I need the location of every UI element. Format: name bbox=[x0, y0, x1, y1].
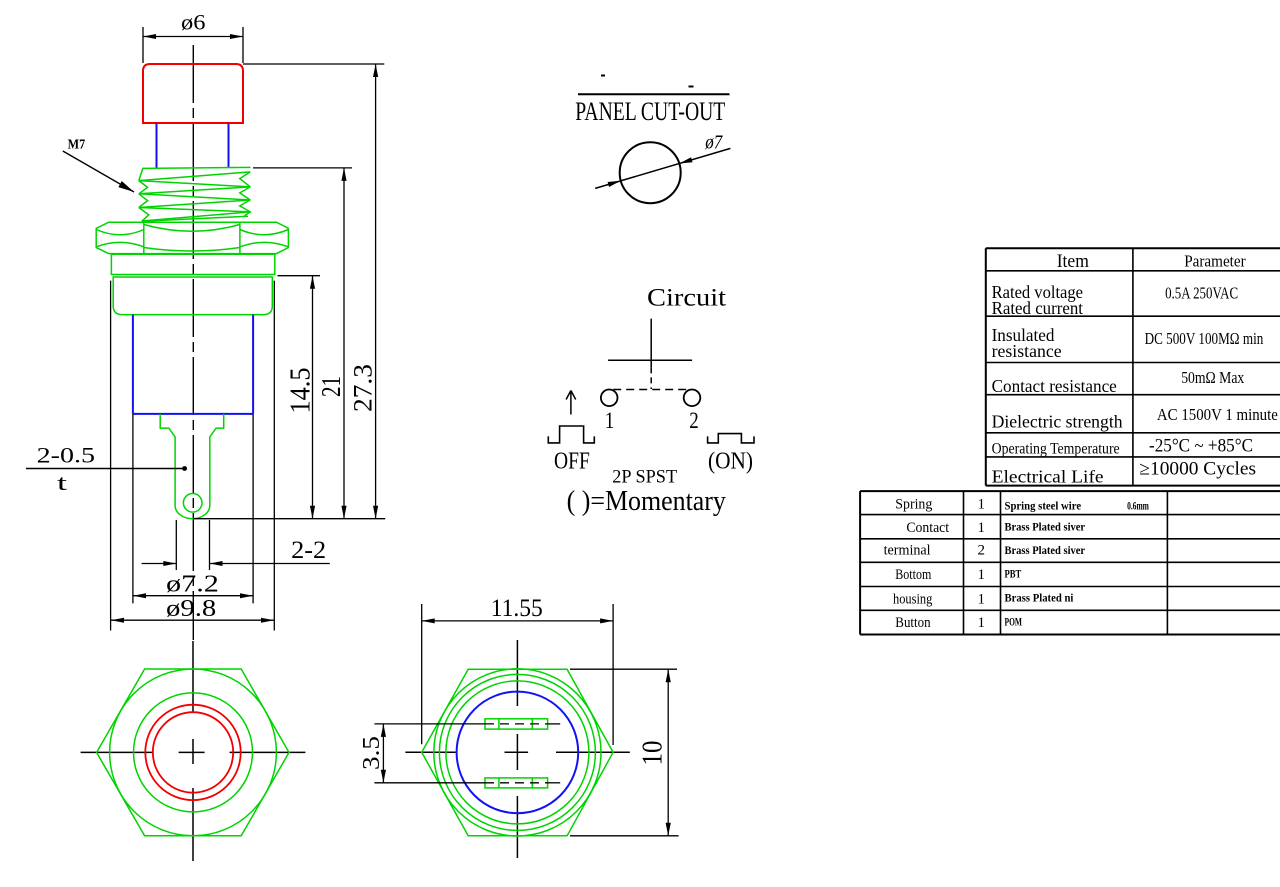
svg-text:≥10000 Cycles: ≥10000 Cycles bbox=[1139, 458, 1256, 479]
svg-text:Contact: Contact bbox=[906, 520, 949, 536]
svg-text:11.55: 11.55 bbox=[491, 595, 543, 622]
svg-text:PANEL CUT-OUT: PANEL CUT-OUT bbox=[575, 97, 725, 126]
svg-text:M7: M7 bbox=[68, 138, 86, 153]
svg-text:( )=Momentary: ( )=Momentary bbox=[567, 486, 726, 517]
svg-text:14.5: 14.5 bbox=[286, 368, 317, 414]
svg-text:2P SPST: 2P SPST bbox=[612, 466, 677, 487]
svg-text:-25°C ~ +85°C: -25°C ~ +85°C bbox=[1149, 436, 1253, 457]
svg-text:1: 1 bbox=[978, 591, 986, 607]
svg-text:0.6mm: 0.6mm bbox=[1127, 499, 1149, 513]
svg-text:Item: Item bbox=[1057, 251, 1089, 272]
svg-text:2-0.5: 2-0.5 bbox=[37, 443, 95, 468]
svg-text:2: 2 bbox=[978, 543, 986, 559]
svg-text:resistance: resistance bbox=[992, 341, 1062, 361]
svg-text:Button: Button bbox=[895, 615, 931, 631]
svg-text:Rated current: Rated current bbox=[992, 298, 1083, 318]
svg-text:(ON): (ON) bbox=[708, 449, 753, 475]
svg-text:Brass Plated ni: Brass Plated ni bbox=[1005, 591, 1074, 605]
svg-text:1: 1 bbox=[978, 615, 986, 631]
svg-text:Operating Temperature: Operating Temperature bbox=[992, 440, 1120, 457]
svg-text:t: t bbox=[57, 470, 67, 495]
svg-text:50mΩ Max: 50mΩ Max bbox=[1181, 368, 1244, 387]
svg-text:Contact resistance: Contact resistance bbox=[992, 376, 1117, 396]
svg-text:Spring steel wire: Spring steel wire bbox=[1005, 499, 1082, 513]
svg-text:Brass Plated siver: Brass Plated siver bbox=[1005, 519, 1086, 533]
svg-text:Bottom: Bottom bbox=[895, 567, 931, 583]
svg-text:Electrical Life: Electrical Life bbox=[992, 467, 1104, 487]
svg-text:PBT: PBT bbox=[1005, 566, 1022, 580]
svg-text:ø6: ø6 bbox=[181, 10, 206, 35]
svg-text:0.5A 250VAC: 0.5A 250VAC bbox=[1165, 284, 1238, 303]
svg-text:2-2: 2-2 bbox=[291, 537, 326, 564]
svg-text:1: 1 bbox=[978, 567, 986, 583]
svg-text:OFF: OFF bbox=[554, 448, 590, 474]
svg-text:2: 2 bbox=[689, 408, 699, 433]
svg-text:3.5: 3.5 bbox=[359, 736, 385, 770]
svg-text:1: 1 bbox=[978, 520, 986, 536]
svg-text:housing: housing bbox=[893, 591, 933, 607]
svg-text:Spring: Spring bbox=[895, 497, 932, 513]
svg-text:1: 1 bbox=[978, 497, 986, 513]
svg-text:ø7.2: ø7.2 bbox=[166, 572, 219, 598]
svg-text:Parameter: Parameter bbox=[1184, 252, 1246, 271]
svg-text:Dielectric strength: Dielectric strength bbox=[992, 412, 1123, 432]
svg-text:AC 1500V 1 minute: AC 1500V 1 minute bbox=[1157, 405, 1278, 424]
svg-text:DC 500V 100MΩ min: DC 500V 100MΩ min bbox=[1145, 329, 1264, 348]
svg-text:terminal: terminal bbox=[884, 543, 931, 559]
svg-text:ø7: ø7 bbox=[704, 131, 723, 153]
svg-text:ø9.8: ø9.8 bbox=[166, 596, 216, 622]
svg-text:27.3: 27.3 bbox=[349, 364, 378, 412]
svg-text:10: 10 bbox=[638, 741, 669, 766]
svg-text:1: 1 bbox=[605, 408, 615, 433]
svg-text:Brass Plated siver: Brass Plated siver bbox=[1005, 543, 1086, 557]
svg-text:Circuit: Circuit bbox=[647, 284, 726, 311]
svg-text:21: 21 bbox=[316, 376, 346, 397]
svg-text:POM: POM bbox=[1005, 614, 1023, 628]
